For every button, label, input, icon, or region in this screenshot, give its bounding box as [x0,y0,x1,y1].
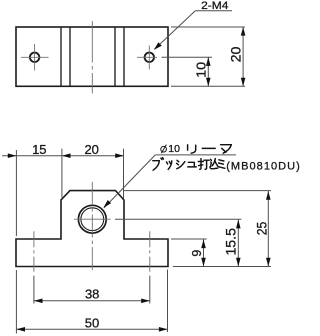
svg-text:(MB0810DU): (MB0810DU) [226,161,300,173]
svg-text:38: 38 [85,286,99,301]
svg-text:2-M4: 2-M4 [201,0,228,12]
svg-text:50: 50 [85,316,99,331]
centerline front vertical [91,182,93,271]
label phi [161,146,167,152]
hole M4 left [30,53,39,62]
boss left edge [60,27,62,86]
glyph ri [188,145,196,153]
extension boss left [61,149,63,198]
glyph mi [218,160,225,169]
dim line 15 and 20 [2,155,124,157]
centerline top view [91,21,93,94]
crosshair bushing [74,218,111,220]
glyph bu [153,158,164,171]
extension base top [171,238,207,240]
svg-text:20: 20 [229,47,244,63]
extension base right [167,270,169,333]
dim 15.5 [237,219,239,266]
glyph small-yu [188,162,196,167]
extension boss top [124,190,271,192]
svg-text:9: 9 [190,250,204,257]
dim 10 [207,57,209,86]
extension left top [15,150,17,236]
chamfer edge right [114,27,116,86]
leader bushing [155,154,236,156]
leader 2-M4 [195,10,232,12]
centerline hole left [33,231,35,271]
crosshair hole right [137,56,157,58]
svg-text:20: 20 [84,142,98,157]
extension base bottom [173,266,271,268]
glyph long-vowel [202,147,215,149]
bushing inner circle [81,208,104,231]
bushing outer circle [78,205,106,233]
svg-text:15.5: 15.5 [224,228,239,256]
dim 50 [16,328,167,330]
crosshair hole left [21,56,49,58]
extension boss right [123,149,125,199]
svg-text:10: 10 [168,143,180,155]
chamfer edge left [69,27,71,86]
dim 38 [34,300,150,302]
svg-text:15: 15 [32,142,46,157]
hole M4 right [145,53,154,62]
extension bush center [115,218,241,220]
extension hole center [162,56,213,58]
glyph ma [221,145,232,154]
svg-text:10: 10 [194,62,209,78]
dim 25 [267,191,269,267]
boss right edge [123,27,125,86]
glyph small-tsu [167,161,172,170]
svg-text:25: 25 [254,222,269,236]
front view outline [16,191,168,267]
extension base left [15,270,17,334]
dim 9 [203,239,205,267]
glyph da (hit) [198,159,209,170]
centerline hole right [149,231,151,271]
extension bottom edge [171,85,245,87]
glyph shi [177,160,185,168]
dim 20 [242,27,244,86]
extension top edge [171,26,245,28]
glyph komi [210,159,218,169]
top view plate outline [16,27,168,86]
